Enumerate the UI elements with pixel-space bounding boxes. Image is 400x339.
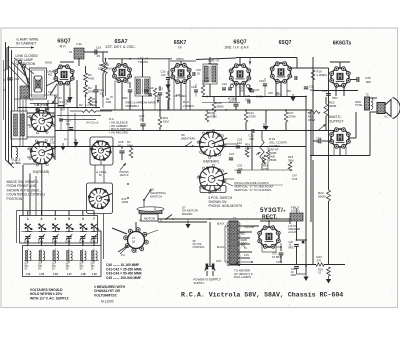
wire transformer leads xyxy=(238,225,259,227)
wire C37 bottom xyxy=(276,261,281,263)
band switch S2 xyxy=(30,142,56,164)
svg-text:390M: 390M xyxy=(329,104,337,108)
grid cap C4 xyxy=(67,99,71,101)
diagonal leads top-left xyxy=(12,62,30,80)
svg-text:L17: L17 xyxy=(67,272,72,276)
svg-text:R.F.: R.F. xyxy=(60,45,67,49)
svg-text:C19: C19 xyxy=(149,86,154,90)
svg-text:JL-964: JL-964 xyxy=(11,161,21,165)
AC plug xyxy=(205,266,215,271)
junction square C36 xyxy=(302,241,305,244)
left area verticals r3 xyxy=(19,98,21,146)
capacitor C21 xyxy=(158,92,162,94)
resistor R23 xyxy=(316,263,324,266)
svg-text:C45: C45 xyxy=(91,239,96,243)
V6 screen stub xyxy=(343,86,345,91)
ground V4 xyxy=(247,88,252,93)
V1 pin wires xyxy=(57,83,59,108)
svg-text:18M: 18M xyxy=(98,66,104,70)
wire pushbutton right side xyxy=(98,230,102,232)
svg-text:IN CABINET: IN CABINET xyxy=(16,42,37,46)
wire x190 vertical xyxy=(189,80,191,110)
vol feed arrow xyxy=(263,123,265,129)
S9 extra xyxy=(154,207,156,211)
svg-text:BOARD: BOARD xyxy=(182,212,192,216)
svg-text:S4(REAR): S4(REAR) xyxy=(33,170,50,174)
resistor R8 xyxy=(166,90,170,100)
transformer left leads xyxy=(225,225,229,227)
wire L5 to C16 xyxy=(84,51,108,53)
svg-text:L8: L8 xyxy=(132,239,136,243)
wire V6 pins down xyxy=(335,86,337,96)
pushbutton top bus xyxy=(17,210,95,212)
svg-text:470M: 470M xyxy=(210,114,218,118)
capacitor C36 xyxy=(294,244,299,246)
wire B+ vertical x306 xyxy=(305,97,307,265)
wire S9 down xyxy=(143,200,145,209)
svg-text:NOW: NOW xyxy=(45,61,52,65)
switch S4b base xyxy=(200,186,226,193)
wire S4 to vol xyxy=(224,143,238,145)
wire speaker bottom bus xyxy=(310,155,370,157)
ground mid xyxy=(263,126,268,131)
capacitor C14 xyxy=(7,77,12,79)
svg-text:V.C.: V.C. xyxy=(384,115,389,119)
resistor R5 xyxy=(101,62,105,73)
capacitor C32 xyxy=(304,86,308,88)
V5 pin wires xyxy=(286,81,288,97)
volume control R19 xyxy=(260,140,264,164)
cap C23 xyxy=(194,89,198,91)
wire row y115 xyxy=(57,115,101,117)
svg-text:R.C.A. Victrola 58V, 58AV, Cha: R.C.A. Victrola 58V, 58AV, Chassis RC-60… xyxy=(181,291,343,298)
svg-text:L5: L5 xyxy=(69,50,73,54)
wire bottom power bus xyxy=(231,264,316,266)
left tick marks xyxy=(4,69,6,71)
junction dots y146 xyxy=(54,146,56,148)
svg-text:OUTPUT: OUTPUT xyxy=(328,120,344,124)
link terminals xyxy=(19,61,22,64)
svg-text:380M: 380M xyxy=(217,104,225,108)
svg-text:MFD.: MFD. xyxy=(289,246,295,249)
svg-text:.005: .005 xyxy=(249,137,255,141)
V1 fanout arrows xyxy=(52,96,57,104)
svg-text:.05: .05 xyxy=(96,54,100,58)
svg-text:C43: C43 xyxy=(66,239,71,243)
phono leads xyxy=(112,228,127,234)
svg-text:4: 4 xyxy=(54,217,56,221)
svg-text:5-20: 5-20 xyxy=(50,142,55,145)
svg-text:.01: .01 xyxy=(99,91,103,95)
svg-text:-1V: -1V xyxy=(232,98,236,101)
svg-text:100V: 100V xyxy=(176,94,182,97)
svg-text:MFD.: MFD. xyxy=(291,274,297,277)
switch S5 symbol xyxy=(185,145,187,147)
V8 pin wires xyxy=(261,245,263,252)
field coil L10 xyxy=(290,213,303,221)
wire gang bus xyxy=(30,103,58,105)
dial lamp xyxy=(34,76,42,92)
resistor Rx C24 xyxy=(201,85,204,95)
resistor R14 xyxy=(244,112,248,122)
S1 stubs xyxy=(27,116,31,118)
cabinet outline box xyxy=(30,68,47,99)
capacitor C19 xyxy=(144,89,148,91)
loop antenna TLC coil xyxy=(16,148,18,158)
wire motor bus y219 xyxy=(158,218,290,220)
svg-text:(HEATER): (HEATER) xyxy=(181,137,195,141)
ground C20 xyxy=(165,85,170,90)
svg-text:R2: R2 xyxy=(79,103,83,107)
svg-text:C13: C13 xyxy=(58,100,64,104)
svg-text:WITH 117 V. AC. SUPPLY.: WITH 117 V. AC. SUPPLY. xyxy=(30,296,69,300)
svg-text:SWITCH: SWITCH xyxy=(150,195,162,199)
wire bus to power xyxy=(289,219,291,224)
svg-text:100: 100 xyxy=(245,97,250,101)
svg-text:85V: 85V xyxy=(287,90,292,93)
wire plug vertical xyxy=(209,222,211,267)
S1 S2 pin bubbles xyxy=(53,124,55,126)
svg-text:PHONO. NON-NIGHTS: PHONO. NON-NIGHTS xyxy=(209,204,243,208)
osc coil parts xyxy=(128,89,132,91)
junction dots bus xyxy=(142,109,144,111)
svg-text:≙4 2.5 mh: ≙4 2.5 mh xyxy=(86,121,99,125)
wire vol line xyxy=(251,131,253,171)
svg-text:VOLTOHMYST.: VOLTOHMYST. xyxy=(94,293,117,297)
svg-text:5V.: 5V. xyxy=(244,247,248,250)
svg-text:C29: C29 xyxy=(259,79,264,83)
tube V5 6SQ7 xyxy=(270,61,292,83)
svg-text:3: 3 xyxy=(82,217,84,221)
wire x77 down xyxy=(76,80,78,108)
V4 diode pins xyxy=(230,84,233,87)
svg-text:T1: T1 xyxy=(233,216,237,220)
svg-text:0V: 0V xyxy=(110,96,113,99)
bus inside lower box xyxy=(24,260,99,262)
capacitor C16 xyxy=(94,49,96,54)
IF transformer T3 xyxy=(135,77,150,96)
resistor R6 xyxy=(104,62,108,74)
svg-text:C13: C13 xyxy=(48,91,53,94)
svg-text:R6: R6 xyxy=(99,63,103,67)
wire V3 grid bus xyxy=(170,60,196,62)
wire bus y96 xyxy=(202,96,306,98)
resistor R1 xyxy=(88,97,91,105)
svg-text:.01: .01 xyxy=(276,91,280,95)
switch S6 xyxy=(88,188,112,209)
wire B+ vertical x313 xyxy=(312,57,314,156)
wire V2 plate up xyxy=(121,59,123,65)
resistor R22 xyxy=(327,190,331,201)
svg-text:SUPPLY: SUPPLY xyxy=(194,281,205,285)
svg-text:P.U.: P.U. xyxy=(121,254,126,257)
svg-text:115V.: 115V. xyxy=(216,260,222,263)
resistor R12 xyxy=(212,102,216,112)
svg-text:TRANS.: TRANS. xyxy=(138,60,149,64)
trimmer second xyxy=(59,118,63,120)
wire coil to switch xyxy=(27,112,55,114)
wire V7 right xyxy=(349,137,356,139)
terminal strip left xyxy=(20,86,29,98)
wire V5 plate right xyxy=(290,67,313,69)
resistor R17 xyxy=(284,112,288,122)
svg-text:39M: 39M xyxy=(288,158,294,162)
tube V3 6SK7 xyxy=(170,63,191,84)
svg-text:51M: 51M xyxy=(163,120,169,124)
svg-text:L16: L16 xyxy=(53,272,58,276)
antenna coil L3 L4 box xyxy=(11,111,27,139)
svg-text:C30: C30 xyxy=(268,91,273,95)
S4 pin bubbles xyxy=(224,145,226,147)
rotary switch S4a xyxy=(199,132,227,156)
resistor R2 inline xyxy=(70,110,82,112)
volume area extra xyxy=(266,150,269,159)
svg-text:5: 5 xyxy=(68,217,70,221)
svg-text:50V: 50V xyxy=(42,114,47,118)
wire row y119 xyxy=(60,119,96,121)
svg-text:270M: 270M xyxy=(249,114,257,118)
wire vol pot ends xyxy=(261,131,263,141)
wire phono bus y222 xyxy=(158,221,207,223)
capacitor C28 xyxy=(247,100,249,104)
wire x313 to bus xyxy=(312,222,314,265)
S2 stubs xyxy=(27,148,31,150)
capacitor C22 xyxy=(140,123,145,125)
wire V4 top xyxy=(239,57,241,65)
svg-text:L15: L15 xyxy=(40,272,45,276)
resistor R20 xyxy=(324,104,328,116)
svg-text:C27: C27 xyxy=(255,88,260,92)
svg-text:6SA7: 6SA7 xyxy=(115,39,128,45)
resistor R16 2.2MEG xyxy=(311,70,315,80)
capacitor C33 xyxy=(326,93,331,95)
capacitor C18 xyxy=(119,150,124,152)
svg-text:DIAL LAMPS: DIAL LAMPS xyxy=(234,275,251,279)
svg-text:POSITION.: POSITION. xyxy=(7,197,24,201)
svg-text:L18: L18 xyxy=(81,272,86,276)
svg-text:BLACK: BLACK xyxy=(217,223,225,226)
svg-text:2.2MEG.: 2.2MEG. xyxy=(183,104,195,108)
tube V7 6K6GT output xyxy=(329,127,351,149)
svg-text:JACK R.: JACK R. xyxy=(120,174,130,177)
vertical x75 xyxy=(74,113,76,147)
left verticals extra xyxy=(14,60,16,111)
capacitor C34 xyxy=(318,139,320,144)
wire AVC bus y107 xyxy=(18,107,100,109)
junction dots motor bus xyxy=(209,218,211,220)
junctions top xyxy=(63,107,65,109)
wire y170 xyxy=(234,169,290,171)
svg-text:1: 1 xyxy=(27,217,29,221)
svg-text:250V: 250V xyxy=(332,97,338,100)
svg-text:0.1: 0.1 xyxy=(64,102,68,106)
svg-text:6.3V.: 6.3V. xyxy=(244,254,250,257)
wire top bus V4-V5 extension xyxy=(236,57,297,59)
junction dots pushbutton xyxy=(27,245,28,246)
svg-text:I.F.: I.F. xyxy=(178,46,183,50)
svg-text:180M: 180M xyxy=(308,118,316,122)
svg-text:2.2MEG.: 2.2MEG. xyxy=(317,73,328,77)
svg-text:6K6GT/₇: 6K6GT/₇ xyxy=(328,115,342,119)
wire V5 bottom xyxy=(280,82,282,97)
svg-text:RED: RED xyxy=(240,233,245,236)
left area horizontals r3 xyxy=(30,94,58,96)
ground arrow C21 xyxy=(157,94,159,103)
wire top bus V2-V3 xyxy=(108,58,172,60)
capacitor C25 xyxy=(192,72,194,76)
svg-text:-8V: -8V xyxy=(58,97,62,100)
switch S7 symbol xyxy=(165,218,167,220)
ground V5 xyxy=(290,97,295,102)
wire C36 down xyxy=(296,247,298,265)
speaker cone xyxy=(385,100,391,117)
svg-text:270M: 270M xyxy=(289,114,297,118)
svg-text:S4(REAR): S4(REAR) xyxy=(203,160,219,164)
svg-text:4700: 4700 xyxy=(88,77,95,81)
IF transformer T4 xyxy=(203,64,217,84)
phono unit circle L7 xyxy=(128,232,145,249)
speaker driver xyxy=(377,103,385,114)
tube V1 6SQ7 xyxy=(53,64,74,85)
bus inside upper box xyxy=(21,231,96,233)
gang trimmers xyxy=(36,107,40,109)
svg-text:7: 7 xyxy=(93,217,95,221)
capacitor C20 xyxy=(166,77,170,79)
oscillator switch S3 box xyxy=(90,137,113,165)
wire rect output xyxy=(280,243,282,247)
rotary switch S4b xyxy=(199,167,227,191)
wire x169 vertical xyxy=(168,59,170,110)
phono stubs r3 xyxy=(145,230,159,235)
svg-text:TOTAL: TOTAL xyxy=(355,104,363,107)
wire to speaker transformer xyxy=(313,90,358,92)
svg-text:560M: 560M xyxy=(318,195,326,199)
more dots power xyxy=(268,220,270,222)
svg-text:-005: -005 xyxy=(309,88,315,92)
svg-text:C42: C42 xyxy=(52,239,57,243)
capacitor C26 xyxy=(233,103,238,105)
svg-text:• ON RECORD: • ON RECORD xyxy=(109,131,128,135)
svg-text:T2: T2 xyxy=(365,93,369,97)
heater wires lower xyxy=(238,261,252,263)
wire vertical x311 xyxy=(310,110,312,222)
switch S9 symbol xyxy=(143,199,145,201)
svg-text:0.05: 0.05 xyxy=(292,177,298,181)
junction dots S6 area xyxy=(127,183,129,185)
resistor R3 xyxy=(84,73,88,82)
resistor R11 xyxy=(158,117,162,127)
svg-text:YELLOW: YELLOW xyxy=(244,226,255,229)
turntable xyxy=(139,209,162,214)
svg-text:C24: C24 xyxy=(222,82,227,86)
wire V6 top xyxy=(339,62,341,68)
antenna lead-in wires xyxy=(5,42,7,160)
svg-text:250M: 250M xyxy=(269,158,277,162)
wire S2 third drop xyxy=(35,176,37,216)
tube V2 6SA7 xyxy=(112,63,132,83)
ground right xyxy=(326,279,331,284)
speaker field hatch xyxy=(296,208,298,213)
wire rect top xyxy=(268,221,270,227)
svg-text:6K6GTs: 6K6GTs xyxy=(333,41,352,47)
wire V3 plate xyxy=(180,61,182,65)
svg-text:5Y3GT/₇: 5Y3GT/₇ xyxy=(260,207,286,214)
wires S2 to pushbuttons xyxy=(29,174,31,216)
svg-text:⊕ C15 ⊕: ⊕ C15 ⊕ xyxy=(96,170,107,174)
svg-text:C23: C23 xyxy=(191,85,196,89)
wire bus y146 xyxy=(12,146,306,148)
svg-text:.01: .01 xyxy=(316,140,320,144)
svg-text:2: 2 xyxy=(41,217,43,221)
svg-text:2ND. I I.F. & A.F.: 2ND. I I.F. & A.F. xyxy=(225,46,250,50)
capacitor C37 xyxy=(279,252,284,254)
svg-text:270: 270 xyxy=(317,258,322,262)
svg-text:C44: C44 xyxy=(79,239,84,243)
svg-text:CONTROL: CONTROL xyxy=(193,246,206,249)
cap C29a xyxy=(263,83,267,85)
diode load caps xyxy=(222,87,226,89)
coil L5 primary xyxy=(74,48,84,59)
svg-text:L14: L14 xyxy=(26,272,31,276)
switch S6 box xyxy=(87,183,113,214)
extra grounds xyxy=(185,224,190,229)
ground V1 xyxy=(67,97,72,102)
svg-text:C33: C33 xyxy=(322,89,328,93)
wire V1 plate xyxy=(60,61,74,63)
svg-text:L19: L19 xyxy=(92,272,97,276)
wire top bus V3-V4 xyxy=(196,58,236,60)
svg-text:C25: C25 xyxy=(196,68,201,72)
capacitor C38 xyxy=(294,266,299,268)
svg-text:C40: C40 xyxy=(24,239,29,243)
svg-text:250V: 250V xyxy=(122,97,128,100)
motor box xyxy=(141,214,158,221)
ground left1 xyxy=(73,142,78,147)
svg-text:VERTICAL “G” TO CHASSIS.: VERTICAL “G” TO CHASSIS. xyxy=(234,188,272,192)
osc coil L2 xyxy=(153,88,156,97)
V3 pin wires xyxy=(173,79,175,110)
svg-text:C45 —— 100-540 MMF.: C45 —— 100-540 MMF. xyxy=(106,276,142,280)
svg-text:15M: 15M xyxy=(106,100,111,104)
wire S6 down to phono xyxy=(103,214,105,260)
svg-text:2.5A: 2.5A xyxy=(76,42,82,46)
svg-text:#51: #51 xyxy=(48,73,53,77)
wire vertical x328 lower xyxy=(328,201,330,265)
svg-text:220M: 220M xyxy=(122,200,129,204)
svg-text:C41: C41 xyxy=(38,239,43,243)
wire vertical x328 xyxy=(328,97,330,190)
svg-text:+FLUX: +FLUX xyxy=(288,230,296,234)
wire main bus y110 xyxy=(100,109,312,111)
tube V6 6K6GT xyxy=(329,66,351,88)
oscillator switch S3 xyxy=(91,141,114,161)
svg-text:C17: C17 xyxy=(130,104,135,108)
resistor R21 xyxy=(308,110,320,113)
band switch S1 xyxy=(31,110,56,132)
capacitor C15 xyxy=(93,89,98,91)
wire bus y130 xyxy=(55,130,335,132)
wire S2 to TLC xyxy=(23,163,42,165)
V7 stubs xyxy=(333,146,335,156)
output transformer T2 xyxy=(365,97,370,110)
wire field to bus xyxy=(296,221,298,240)
wire V2 cathode down xyxy=(121,81,123,110)
wire vertical x313 lower xyxy=(312,160,314,222)
svg-text:50: 50 xyxy=(118,144,122,148)
wire V1 cathode down xyxy=(63,84,65,108)
wire y102 mid xyxy=(202,102,240,104)
dial arrow right xyxy=(318,124,326,131)
